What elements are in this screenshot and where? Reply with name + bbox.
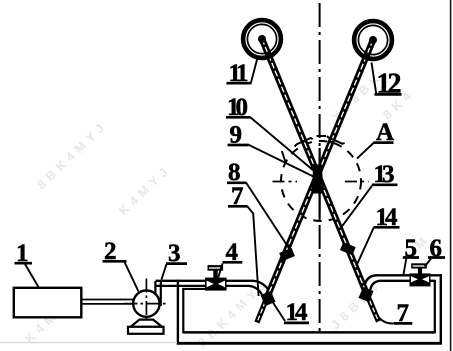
- valve 4 (gate valve on left feed pipe): [205, 265, 227, 291]
- leader of label 10: [250, 117, 317, 174]
- faint scan line bottom left: [0, 342, 177, 344]
- vertical dash-dot centerline: [319, 3, 321, 331]
- leader of label 5: [403, 259, 406, 276]
- underline of label 2: [103, 260, 127, 263]
- leader of label 2: [125, 262, 139, 292]
- horizontal centerline of circle A, right segment: [345, 181, 369, 183]
- leader of label 9: [248, 145, 318, 179]
- underline of label 4: [223, 261, 243, 264]
- tick between leaders 9 and 10: [282, 151, 286, 164]
- motor shaft lower line: [82, 303, 136, 305]
- leader of left label 14: [272, 301, 285, 321]
- underline of left label 7: [228, 205, 248, 208]
- nozzle tip 7 of rod 12: [257, 295, 268, 323]
- underline of label 9: [228, 144, 249, 147]
- upper tick on rod 12: [327, 136, 345, 144]
- clamp 8 on rod 12: [279, 248, 295, 261]
- pump riser pipe right line: [160, 281, 162, 306]
- underline of label 11: [227, 82, 252, 85]
- right feed pipe upper line with elbow to right rod: [364, 275, 442, 288]
- pump 2 body circle: [133, 290, 159, 316]
- loop pipe right wall outer line: [440, 274, 442, 344]
- leader of label 6: [425, 258, 432, 266]
- crossing joint 9/10 of the two rods: [311, 165, 323, 194]
- leader of label 11: [251, 59, 257, 83]
- underline of label 3: [166, 262, 187, 265]
- loop pipe right wall inner line: [434, 280, 436, 334]
- loop pipe bottom outer line: [177, 342, 442, 345]
- pulley ring 11: [243, 20, 281, 58]
- leader of label 13: [342, 186, 372, 227]
- underline of right label 7: [394, 322, 412, 325]
- leader of label 8: [246, 183, 289, 249]
- underline of right label 14: [374, 226, 400, 229]
- underline of label 1: [15, 262, 33, 265]
- dashed circle A (spray overlap zone): [281, 141, 361, 221]
- underline of label 12: [375, 93, 402, 96]
- leader of label A: [357, 143, 374, 159]
- tank 1 (reservoir box): [14, 288, 82, 318]
- loop pipe left wall inner line: [182, 288, 184, 333]
- upper tick on rod 11: [295, 138, 313, 147]
- loop pipe bottom inner line: [183, 331, 434, 334]
- loop pipe left wall outer line: [177, 280, 179, 345]
- right page border line: [450, 0, 452, 351]
- leader of right label 14: [356, 227, 374, 266]
- underline of label 8: [227, 181, 246, 184]
- underline of left label 14: [284, 322, 309, 325]
- coupling 14 on rod 12: [261, 291, 276, 306]
- horizontal centerline of circle A, left segment: [273, 181, 298, 183]
- underline of label 5: [403, 256, 419, 259]
- spray rod 11 (from left pulley, upper-left to lower-right): [262, 39, 368, 298]
- underline of label 6: [428, 256, 445, 259]
- pump 2 vertical centerline: [145, 279, 147, 324]
- leader of label 3: [162, 264, 167, 280]
- leader of label 1: [25, 264, 39, 288]
- pipe 3: left feed pipe upper line with elbow to left rod: [156, 281, 270, 292]
- right feed pipe lower line with elbow to right rod: [370, 281, 435, 291]
- underline of label 10: [226, 116, 250, 119]
- motor shaft upper line: [82, 299, 136, 301]
- leader of left label 7: [248, 207, 259, 297]
- leader of right label 7: [380, 318, 396, 323]
- pump 2 pedestal trapezoid: [131, 320, 162, 327]
- pump 2 foot plate: [128, 327, 164, 334]
- pulley ring 12: [354, 21, 392, 59]
- tank inner top segment to valve 4: [182, 288, 206, 290]
- leader of label 4: [218, 264, 222, 278]
- underline of label 13: [372, 183, 398, 186]
- clamp 8 on rod 11: [340, 242, 356, 255]
- centerline cross tick: [317, 135, 327, 137]
- underline of label A: [374, 141, 394, 144]
- pump 2 horizontal centerline: [124, 303, 169, 305]
- pipe 3: left feed pipe lower line with elbow to left rod: [156, 286, 263, 295]
- leader of label 12: [372, 63, 377, 94]
- pump riser pipe left line: [154, 281, 156, 300]
- valve 5 with handwheel 6 (gate valve on right feed pipe): [410, 263, 431, 286]
- spray rod 12 (from right pulley, upper-right to lower-left): [267, 40, 373, 298]
- nozzle tip 7 of rod 11: [367, 294, 379, 322]
- centerline solid segment through crossing: [319, 148, 321, 218]
- coupling 14 on rod 11: [359, 287, 374, 302]
